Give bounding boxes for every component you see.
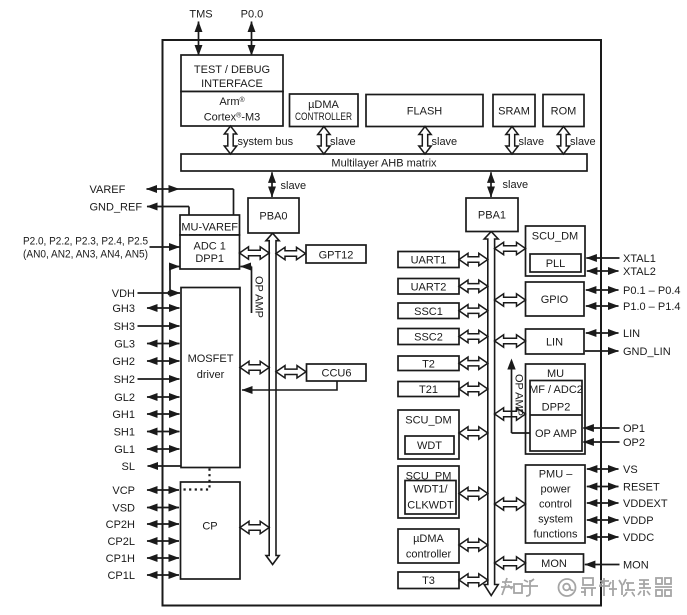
block uDMA CONTROLLER (top) — [290, 94, 359, 127]
wire GH3 bidirectional — [147, 307, 180, 309]
wire CP1H bidirectional — [147, 557, 179, 559]
block UART2 — [398, 279, 459, 295]
svg-text:VDDP: VDDP — [623, 515, 654, 527]
block MON — [526, 554, 584, 572]
wire GND_LIN out of chip — [585, 350, 619, 352]
arrow uDMA slave to AHB matrix — [318, 127, 330, 155]
svg-text:CLKWDT: CLKWDT — [407, 500, 454, 512]
svg-text:T21: T21 — [419, 384, 438, 396]
arrowhead VAREF into chip — [169, 185, 180, 193]
wire GND_REF down to MU-VAREF — [188, 207, 190, 215]
wire VAREF down to MU-VAREF — [233, 189, 235, 215]
svg-text:UART1: UART1 — [411, 255, 447, 267]
svg-text:P0.0: P0.0 — [241, 9, 264, 21]
wire CP1L bidirectional — [147, 574, 179, 576]
svg-text:SRAM: SRAM — [498, 106, 530, 118]
block ROM — [543, 95, 584, 127]
wire LIN bidirectional — [586, 332, 619, 334]
arrow PBA1 bus to PMU — [495, 498, 526, 510]
arrow T21 to PBA1 bus — [459, 383, 488, 395]
svg-text:GL2: GL2 — [114, 392, 135, 404]
svg-text:VS: VS — [623, 464, 638, 476]
arrow PBA1 bus to GPIO — [495, 294, 526, 306]
svg-text:SH1: SH1 — [114, 427, 135, 439]
svg-text:DPP1: DPP1 — [195, 253, 224, 265]
block CCU6 — [307, 364, 367, 381]
wire SH3 into MOSFET driver — [138, 325, 180, 327]
svg-text:MON: MON — [541, 558, 567, 570]
wire GL2 bidirectional — [147, 396, 180, 398]
wire TMS to TEST/DEBUG — [198, 22, 200, 56]
wire OP AMP vertical (right) — [511, 368, 513, 433]
wire RESET bidirectional — [587, 486, 619, 488]
wire VDDC bidirectional — [587, 536, 619, 538]
svg-text:Multilayer AHB matrix: Multilayer AHB matrix — [331, 158, 437, 170]
arrow T2 to PBA1 bus — [459, 357, 488, 369]
wire VCP bidirectional — [147, 489, 179, 491]
svg-text:P0.1 – P0.4: P0.1 – P0.4 — [623, 285, 681, 297]
peripheral bus PBA0 (vertical block arrow) — [266, 233, 279, 564]
svg-text:SSC1: SSC1 — [414, 306, 443, 318]
svg-text:system: system — [538, 514, 573, 526]
svg-text:VCP: VCP — [112, 485, 135, 497]
wire OP2 into chip — [583, 441, 619, 443]
block T2 — [398, 356, 459, 371]
block TEST / DEBUG INTERFACE — [181, 55, 283, 92]
wire GH2 bidirectional — [147, 360, 180, 362]
svg-text:OP1: OP1 — [623, 423, 645, 435]
wire P0.0 to TEST/DEBUG — [251, 22, 253, 56]
svg-text:CONTROLLER: CONTROLLER — [295, 111, 352, 123]
svg-text:GH2: GH2 — [112, 356, 135, 368]
junction dot VDH — [167, 290, 172, 295]
svg-text:VSD: VSD — [112, 503, 135, 515]
svg-text:slave: slave — [330, 136, 356, 148]
arrow SSC2 to PBA1 bus — [459, 330, 488, 342]
svg-text:CP: CP — [202, 521, 217, 533]
arrow PBA1 bus to MU — [495, 408, 526, 420]
wire P1.0-P1.4 bidirectional — [586, 305, 619, 307]
arrow Cortex-M3 system bus to AHB matrix — [224, 126, 236, 154]
svg-text:ADC 1: ADC 1 — [193, 241, 225, 253]
svg-text:VAREF: VAREF — [90, 184, 126, 196]
block MOSFET driver — [181, 288, 240, 468]
svg-text:VDDC: VDDC — [623, 532, 654, 544]
arrow UART2 to PBA1 bus — [459, 280, 488, 292]
svg-text:GPIO: GPIO — [541, 294, 569, 306]
wire VSD bidirectional — [147, 507, 179, 509]
svg-text:µDMA: µDMA — [413, 533, 444, 545]
svg-text:GH3: GH3 — [112, 303, 135, 315]
svg-text:slave: slave — [432, 136, 458, 148]
block WDT — [405, 436, 454, 454]
block SCU_DM (watchdog) — [398, 410, 459, 459]
wire VDDP bidirectional — [587, 519, 619, 521]
wire VDDEXT bidirectional — [587, 502, 619, 504]
block PBA1 — [466, 198, 518, 232]
wire GH1 bidirectional — [147, 413, 180, 415]
wire VS bidirectional — [587, 468, 619, 470]
arrow ADC1/DPP1 to PBA0 bus — [240, 247, 270, 259]
svg-text:controller: controller — [406, 549, 452, 561]
arrow T3 to PBA1 bus — [459, 574, 488, 586]
svg-text:GND_REF: GND_REF — [90, 202, 143, 214]
block SCU_DM (clock) — [526, 226, 586, 276]
svg-text:control: control — [539, 499, 572, 511]
svg-text:XTAL1: XTAL1 — [623, 253, 656, 265]
wire OP AMP vertical (left) — [251, 267, 253, 314]
block WDT1/CLKWDT — [405, 481, 456, 515]
svg-text:GH1: GH1 — [112, 409, 135, 421]
svg-text:UART2: UART2 — [411, 281, 447, 293]
svg-text:VDH: VDH — [112, 288, 135, 300]
svg-text:SSC2: SSC2 — [414, 332, 443, 344]
wire OP AMP signal into DPP1 — [241, 266, 252, 268]
svg-text:SCU_DM: SCU_DM — [405, 415, 451, 427]
wire P0.1-P0.4 bidirectional — [586, 289, 619, 291]
svg-text:slave: slave — [519, 136, 545, 148]
wire GL1 bidirectional — [147, 448, 180, 450]
svg-text:GL1: GL1 — [114, 444, 135, 456]
wire CP2L bidirectional — [147, 540, 179, 542]
svg-text:TMS: TMS — [189, 9, 212, 21]
arrow SCU_PM to PBA1 bus — [459, 487, 488, 499]
svg-text:MOSFET: MOSFET — [188, 353, 234, 365]
wire OP1 into chip — [583, 427, 619, 429]
arrow PBA1 bus to SCU_DM — [495, 242, 526, 254]
peripheral bus PBA1 (vertical block arrow) — [484, 232, 498, 596]
svg-text:MU-VAREF: MU-VAREF — [181, 222, 238, 234]
wire VDH branch into DPP1 — [170, 266, 180, 268]
divider MU inner box — [530, 414, 582, 416]
arrow PBA0 bus to GPT12 — [276, 247, 306, 259]
svg-text:driver: driver — [197, 369, 225, 381]
svg-text:OP2: OP2 — [623, 437, 645, 449]
arrowhead OP AMP up (right) — [507, 359, 515, 370]
arrow UART1 to PBA1 bus — [459, 253, 488, 265]
wire CCU6 feedback to MOSFET driver — [242, 382, 337, 391]
block FLASH — [366, 95, 483, 127]
svg-text:CCU6: CCU6 — [322, 368, 352, 380]
arrow PBA1 bus to LIN — [495, 335, 526, 347]
block Arm Cortex-M3 core — [181, 92, 283, 127]
block LIN — [526, 329, 585, 354]
svg-text:PBA0: PBA0 — [259, 211, 287, 223]
svg-text:OP AMP: OP AMP — [513, 374, 525, 416]
wire XTAL2 bidirectional — [587, 270, 619, 272]
wire GL3 bidirectional — [147, 343, 180, 345]
wire MON into chip — [585, 564, 620, 566]
svg-text:PBA1: PBA1 — [478, 210, 506, 222]
svg-text:GPT12: GPT12 — [319, 250, 354, 262]
block SCU_PM — [398, 466, 459, 518]
svg-text:Cortex®-M3: Cortex®-M3 — [204, 112, 261, 124]
svg-text:CP2H: CP2H — [106, 519, 135, 531]
wire VAREF — [147, 188, 234, 190]
block MU measurement unit — [526, 364, 586, 454]
block SSC1 — [398, 303, 459, 319]
arrow SRAM slave to AHB matrix — [506, 127, 518, 155]
arrow PBA1 bus to MON — [495, 557, 526, 569]
svg-text:slave: slave — [281, 180, 307, 192]
svg-text:DPP2: DPP2 — [542, 402, 571, 414]
wire VDH into MOSFET driver — [138, 292, 181, 294]
block PMU power control — [526, 465, 586, 543]
chip boundary box — [163, 40, 602, 606]
arrow CP to PBA0 bus — [240, 521, 269, 533]
svg-text:MU: MU — [547, 368, 564, 380]
arrow SCU_DM to PBA1 bus — [459, 427, 488, 439]
svg-text:SH3: SH3 — [114, 321, 135, 333]
wire P2.x to ADC 1 — [150, 246, 180, 248]
block GPT12 — [306, 245, 366, 263]
watermark zhihu @ankeshaoluqi — [501, 578, 672, 596]
svg-text:RESET: RESET — [623, 482, 660, 494]
wire XTAL1 into chip — [586, 257, 619, 259]
svg-text:CP2L: CP2L — [107, 536, 135, 548]
svg-text:MF / ADC2: MF / ADC2 — [529, 384, 583, 396]
svg-text:WDT1/: WDT1/ — [413, 484, 448, 496]
svg-text:OP AMP: OP AMP — [253, 276, 265, 318]
svg-text:P1.0 – P1.4: P1.0 – P1.4 — [623, 301, 681, 313]
svg-text:VDDEXT: VDDEXT — [623, 498, 668, 510]
block T21 — [398, 382, 459, 397]
svg-text:SCU_DM: SCU_DM — [532, 231, 578, 243]
block ADC 1 / DPP1 — [180, 235, 240, 269]
svg-text:P2.0, P2.2, P2.3, P2.4, P2.5: P2.0, P2.2, P2.3, P2.4, P2.5 — [23, 236, 148, 248]
svg-text:SL: SL — [122, 461, 135, 473]
block PLL — [530, 254, 581, 272]
block uDMA controller (bottom) — [398, 529, 459, 563]
block Multilayer AHB matrix — [181, 154, 587, 171]
svg-text:PMU –: PMU – — [539, 469, 574, 481]
wire CP2H bidirectional — [147, 523, 179, 525]
block SRAM — [493, 95, 535, 127]
svg-text:T2: T2 — [422, 358, 435, 370]
svg-text:LIN: LIN — [623, 328, 640, 340]
svg-text:GL3: GL3 — [114, 339, 135, 351]
svg-text:CP1L: CP1L — [107, 570, 135, 582]
svg-text:(AN0, AN2, AN3, AN4, AN5): (AN0, AN2, AN3, AN4, AN5) — [23, 249, 148, 261]
wire GND_REF — [147, 206, 189, 208]
svg-text:system bus: system bus — [238, 136, 294, 148]
svg-text:µDMA: µDMA — [308, 99, 339, 111]
svg-text:TEST / DEBUG: TEST / DEBUG — [194, 64, 270, 76]
arrow uDMA controller to PBA1 bus — [459, 539, 488, 551]
wire SH2 into MOSFET driver — [138, 378, 180, 380]
svg-text:INTERFACE: INTERFACE — [201, 78, 263, 90]
svg-text:GND_LIN: GND_LIN — [623, 346, 671, 358]
arrow PBA0 bus to CCU6 — [276, 366, 306, 378]
svg-text:CP1H: CP1H — [106, 553, 135, 565]
svg-text:XTAL2: XTAL2 — [623, 266, 656, 278]
arrow FLASH slave to AHB matrix — [419, 127, 431, 155]
arrow SSC1 to PBA1 bus — [459, 305, 488, 317]
arrow AHB to PBA1 slave — [490, 172, 492, 197]
svg-text:power: power — [541, 484, 571, 496]
arrow ROM slave to AHB matrix — [557, 127, 569, 155]
svg-text:SH2: SH2 — [114, 374, 135, 386]
block CP charge pump — [181, 482, 241, 579]
block PBA0 — [248, 198, 299, 233]
block UART1 — [398, 252, 459, 268]
block GPIO — [526, 282, 585, 316]
svg-text:PLL: PLL — [546, 258, 566, 270]
wire VDH branch up — [169, 267, 171, 294]
svg-text:OP AMP: OP AMP — [535, 428, 577, 440]
wire SH1 bidirectional — [147, 431, 180, 433]
wire SL out of MOSFET driver — [148, 465, 181, 467]
wire OP AMP into MU OP AMP — [512, 432, 530, 434]
svg-text:functions: functions — [533, 529, 578, 541]
svg-text:WDT: WDT — [417, 440, 442, 452]
svg-text:slave: slave — [570, 136, 596, 148]
block SSC2 — [398, 329, 459, 345]
arrow MOSFET driver to PBA0 bus — [240, 361, 269, 373]
block MF/ADC2/DPP2/OPAMP inner — [530, 381, 582, 452]
svg-text:slave: slave — [503, 179, 529, 191]
block MU-VAREF — [180, 215, 240, 235]
dotted wire MOSFET driver to CP — [182, 469, 210, 490]
svg-text:LIN: LIN — [546, 337, 563, 349]
svg-text:ROM: ROM — [551, 106, 577, 118]
svg-text:MON: MON — [623, 560, 649, 572]
svg-text:FLASH: FLASH — [407, 106, 443, 118]
block T3 — [398, 572, 459, 589]
arrow AHB to PBA0 slave — [271, 172, 273, 197]
svg-text:T3: T3 — [422, 575, 435, 587]
